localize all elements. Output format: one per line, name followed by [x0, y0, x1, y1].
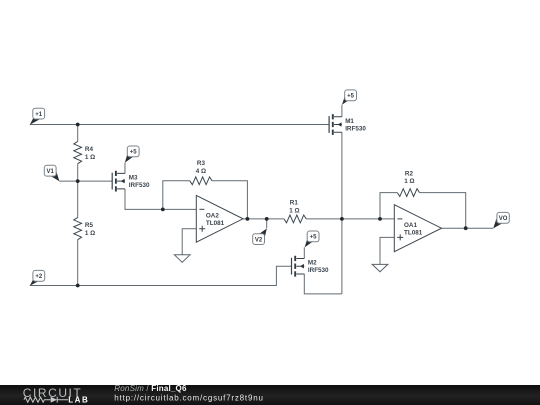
svg-text:LAB: LAB — [68, 395, 89, 404]
net flag +1 — [30, 108, 45, 125]
svg-text:1 Ω: 1 Ω — [289, 207, 299, 214]
wire OA2 output to feedback R3 — [212, 181, 247, 219]
transistor M1 — [329, 114, 342, 135]
svg-text:R2: R2 — [405, 170, 414, 177]
net flag +5 at M3 — [125, 146, 139, 163]
wire R5 top stub — [77, 181, 79, 217]
node junction OA2 minus/feedback — [161, 208, 165, 212]
transistor M2 — [292, 256, 305, 277]
resistor R2 — [397, 189, 419, 197]
wire OA2 plus input to ground — [182, 229, 196, 255]
svg-text:VO: VO — [499, 216, 508, 222]
net flag +5 at M2 — [305, 231, 319, 247]
wire +1 rail — [30, 124, 329, 126]
svg-text:V2: V2 — [255, 237, 263, 243]
wire R2 to OA1 output — [420, 193, 466, 229]
svg-text:+2: +2 — [35, 274, 43, 280]
wire V1 to M3 gate — [59, 180, 112, 182]
svg-text:IRF530: IRF530 — [129, 182, 150, 189]
svg-text:R1: R1 — [290, 200, 299, 207]
svg-text:R5: R5 — [85, 222, 94, 229]
ground at OA1 plus input — [372, 264, 388, 271]
footer logo circuit glyph — [24, 397, 68, 403]
svg-text:RonSim / Final_Q6: RonSim / Final_Q6 — [114, 384, 187, 393]
resistor R5 — [74, 217, 82, 239]
wire M3 source to OA2 minus input — [125, 189, 196, 209]
svg-text:http://circuitlab.com/cgsuf7rz: http://circuitlab.com/cgsuf7rz8t9nu — [114, 393, 263, 402]
svg-text:+1: +1 — [35, 112, 43, 118]
svg-text:TL081: TL081 — [206, 220, 225, 227]
svg-text:1 Ω: 1 Ω — [404, 178, 414, 185]
svg-text:+5: +5 — [310, 235, 318, 241]
svg-text:OA2: OA2 — [206, 212, 219, 219]
svg-text:1 Ω: 1 Ω — [85, 230, 95, 237]
wire OA1 feedback left — [380, 193, 397, 219]
svg-text:+5: +5 — [347, 94, 355, 100]
node junction R2/OA1 output — [464, 226, 468, 230]
op-amp OA1 — [394, 205, 441, 252]
wire M1 drain to +5 — [341, 105, 343, 117]
wire OA1 output — [442, 227, 494, 229]
wire R5 to +2 rail — [77, 240, 79, 286]
net flag +2 — [30, 270, 45, 285]
footer bar — [0, 385, 540, 405]
svg-text:R3: R3 — [197, 160, 206, 167]
wire M3 drain to +5 — [124, 163, 126, 174]
net flag +5 at M1 — [342, 90, 357, 105]
wire OA1 plus input to ground — [380, 237, 394, 264]
net flag V1 — [44, 165, 59, 181]
svg-text:V1: V1 — [47, 169, 55, 175]
node junction M1 source/R1 — [340, 217, 344, 221]
svg-text:TL081: TL081 — [404, 229, 423, 236]
node junction OA2 output/feedback — [246, 217, 250, 221]
wire +2 rail to M2 gate — [30, 266, 292, 285]
svg-text:M1: M1 — [345, 118, 354, 125]
svg-text:M3: M3 — [129, 175, 138, 182]
net flag VO — [493, 212, 509, 228]
wire M2 drain to +5 — [303, 247, 305, 258]
node junction OA1 minus/feedback — [378, 217, 382, 221]
wire R3 to OA2 minus node — [163, 181, 190, 210]
wire R1 to OA1 minus input — [306, 218, 394, 220]
wire R4 to V1 rail — [77, 164, 79, 181]
node junction +1/R4 — [76, 123, 80, 127]
svg-text:IRF530: IRF530 — [308, 267, 329, 274]
svg-text:OA1: OA1 — [404, 222, 417, 229]
wire M2 source to M1 net — [304, 274, 342, 294]
resistor R1 — [284, 215, 306, 223]
node junction +2/R5 — [76, 284, 80, 288]
svg-text:1 Ω: 1 Ω — [85, 154, 95, 161]
wire OA2 output to R1 — [243, 218, 284, 220]
svg-text:4 Ω: 4 Ω — [196, 168, 206, 175]
node junction V2 tap — [265, 217, 269, 221]
svg-text:R4: R4 — [85, 146, 94, 153]
svg-text:+5: +5 — [130, 150, 138, 156]
svg-text:IRF530: IRF530 — [345, 125, 366, 132]
node junction V1/R4/R5 — [76, 179, 80, 183]
wire M1 source vertical — [341, 132, 343, 294]
net flag V2 — [253, 229, 267, 245]
wire R4 top stub — [77, 125, 79, 142]
wire V2 tap stub — [266, 219, 268, 229]
transistor M3 — [112, 171, 125, 192]
op-amp OA2 — [196, 195, 243, 242]
ground at OA2 plus input — [174, 255, 190, 262]
resistor R3 — [190, 177, 212, 185]
svg-text:M2: M2 — [308, 260, 317, 267]
resistor R4 — [74, 141, 82, 163]
